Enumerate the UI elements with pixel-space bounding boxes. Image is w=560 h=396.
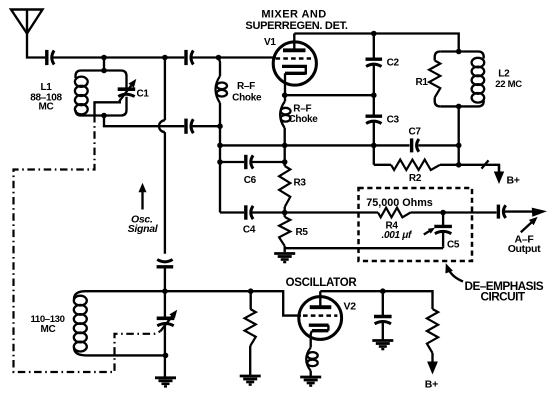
label Osc. Signal bbox=[128, 214, 159, 236]
svg-text:MIXER AND: MIXER AND bbox=[261, 9, 326, 21]
node C6 right bbox=[282, 159, 288, 165]
B+ arrow (bottom) bbox=[427, 353, 438, 375]
wire cathode to C2C3 mid bbox=[285, 94, 374, 96]
node y145 L2 tap bbox=[456, 143, 462, 149]
node L2 top bbox=[456, 49, 462, 55]
wire R4 to output cap bbox=[411, 211, 497, 213]
svg-text:CIRCUIT: CIRCUIT bbox=[481, 290, 526, 304]
node choke2 y145 bbox=[282, 143, 288, 149]
svg-text:Choke: Choke bbox=[232, 92, 262, 103]
wire R3 bottom bbox=[284, 207, 286, 217]
label V2 bbox=[344, 300, 357, 312]
node C2C3 mid bbox=[371, 92, 377, 98]
capacitor tank-bottom coupling bbox=[186, 119, 193, 134]
label C4 bbox=[243, 225, 256, 236]
wire osc tank top bus bbox=[86, 291, 301, 315]
tube V1 bbox=[273, 34, 316, 86]
node R3 R5 C4 bbox=[282, 210, 288, 216]
node C5 tap bbox=[440, 210, 446, 216]
A-F label arrow bbox=[521, 217, 538, 232]
svg-text:B+: B+ bbox=[507, 175, 520, 187]
node cathode tap bbox=[282, 92, 288, 98]
svg-text:75,000 Ohms: 75,000 Ohms bbox=[366, 197, 433, 209]
capacitor C3 bbox=[366, 116, 383, 123]
wire tank bottom to coupling cap bbox=[104, 116, 184, 127]
wire osc rail to varcap bbox=[164, 291, 166, 318]
label C2 bbox=[387, 58, 400, 69]
rf choke 2 bbox=[280, 102, 290, 129]
label R2 bbox=[409, 173, 422, 184]
wire choke2 bottom bbox=[284, 128, 286, 166]
label R1 bbox=[416, 77, 429, 88]
svg-text:C6: C6 bbox=[244, 175, 257, 186]
variable capacitor osc tuning bbox=[157, 310, 178, 332]
svg-text:C5: C5 bbox=[447, 240, 460, 251]
ganged tuning dash-dot link bbox=[14, 115, 161, 372]
wire V2 cathode lead bbox=[311, 331, 312, 348]
wire osc rail upper bbox=[164, 58, 166, 121]
ground bypass bbox=[372, 341, 393, 350]
wire C4 to R4 bus bbox=[251, 211, 379, 213]
wire grid bus left bbox=[52, 56, 185, 58]
label MIXER AND SUPERREGEN. DET. bbox=[245, 9, 347, 32]
label C1 bbox=[137, 89, 150, 100]
label R4 bbox=[386, 221, 399, 232]
wire rail2 bbox=[219, 103, 221, 213]
ground osc grid leak bbox=[240, 376, 261, 385]
svg-text:MC: MC bbox=[39, 102, 54, 113]
A-F output arrow bbox=[503, 208, 547, 217]
tube V2 bbox=[299, 291, 342, 339]
wire C6 right bbox=[251, 161, 285, 163]
capacitor C1 (variable) bbox=[118, 79, 137, 101]
node R2 L2 junction bbox=[456, 162, 462, 168]
wire V1 plate bus bbox=[294, 34, 458, 52]
wire V2 plate bus bbox=[320, 291, 432, 309]
label R-F Choke (2) bbox=[288, 104, 318, 125]
wire bypass cap gnd bbox=[382, 321, 384, 340]
wire C2 stem top bbox=[373, 34, 375, 60]
wire C5 bottom return bbox=[442, 247, 444, 248]
label .001 uf bbox=[382, 228, 435, 241]
label L2 22MC bbox=[495, 69, 522, 90]
label C5 bbox=[447, 240, 460, 251]
label 75,000 Ohms bbox=[366, 197, 433, 209]
label C6 bbox=[244, 175, 257, 186]
wire grid bus right bbox=[191, 56, 275, 58]
wire varcap to tank bottom bbox=[164, 326, 166, 377]
capacitor B+ bypass bbox=[374, 317, 392, 324]
svg-text:Choke: Choke bbox=[288, 114, 318, 125]
wire V2 cathode gnd bbox=[310, 371, 312, 377]
resistor R3 bbox=[279, 166, 290, 207]
svg-text:V2: V2 bbox=[344, 300, 357, 312]
svg-text:Signal: Signal bbox=[128, 223, 159, 235]
node osc tank bottom bbox=[163, 353, 169, 359]
rf choke 1 bbox=[216, 76, 228, 103]
inductor L2 bbox=[440, 52, 484, 107]
capacitor osc injection (top) bbox=[186, 50, 193, 65]
svg-text:R2: R2 bbox=[409, 173, 422, 184]
wire y145 bus bbox=[220, 144, 459, 146]
capacitor osc coupling (rail) bbox=[157, 260, 174, 267]
wire coupling cap to rail2 bbox=[191, 125, 220, 127]
wire C3 to R2 bbox=[374, 164, 391, 166]
node osc injection tap bbox=[162, 55, 168, 61]
wire C1 shaft link (solid part) bbox=[95, 102, 122, 115]
wire osc rail mid bbox=[164, 132, 166, 254]
capacitor C6 bbox=[246, 155, 253, 169]
svg-text:C1: C1 bbox=[137, 89, 150, 100]
label L1 88-108 MC bbox=[30, 82, 62, 113]
antenna bbox=[11, 10, 43, 34]
svg-text:OSCILLATOR: OSCILLATOR bbox=[286, 277, 358, 289]
node osc grid leak tap bbox=[248, 288, 254, 294]
svg-text:V1: V1 bbox=[264, 37, 276, 48]
label C7 bbox=[409, 127, 422, 138]
node tank bottom bbox=[101, 113, 107, 119]
de-emphasis pointer arrow bbox=[445, 263, 463, 281]
wire R5 bottom bbox=[285, 246, 443, 252]
label B+ (bottom) bbox=[425, 378, 438, 390]
wire osc rail lower bbox=[164, 267, 166, 291]
svg-text:R1: R1 bbox=[416, 77, 429, 88]
label R5 bbox=[296, 227, 309, 238]
resistor R2 bbox=[391, 160, 440, 170]
wire choke1 top lead bbox=[219, 58, 221, 77]
capacitor C7 bbox=[412, 138, 419, 152]
ground osc tank bbox=[155, 378, 176, 387]
wire grid leak bottom bbox=[249, 346, 251, 376]
node C3 y145 bbox=[371, 143, 377, 149]
node osc rail tank top bbox=[162, 288, 168, 294]
label C3 bbox=[387, 115, 400, 126]
capacitor antenna coupling bbox=[47, 50, 54, 65]
wire tank stub bbox=[101, 58, 107, 74]
resistor R4 bbox=[378, 208, 411, 218]
label 110-130 MC bbox=[30, 314, 64, 335]
svg-text:R–F: R–F bbox=[237, 81, 255, 92]
ground R5 bbox=[274, 254, 295, 263]
node tank top tap bbox=[101, 55, 107, 61]
capacitor A-F output coupling bbox=[498, 205, 505, 219]
capacitor C5 bbox=[434, 213, 452, 247]
svg-text:C2: C2 bbox=[387, 58, 400, 69]
label R-F Choke (1) bbox=[232, 81, 262, 103]
oscillator tank coil bbox=[74, 291, 166, 355]
node V2 bypass tap bbox=[380, 288, 386, 294]
wire antenna lead bbox=[27, 32, 45, 58]
label A-F Output bbox=[508, 233, 541, 255]
svg-text:MC: MC bbox=[41, 324, 56, 335]
svg-text:Output: Output bbox=[508, 243, 541, 255]
svg-text:C4: C4 bbox=[243, 225, 256, 236]
de-emphasis dashed box bbox=[359, 188, 473, 261]
svg-text:C7: C7 bbox=[409, 127, 422, 138]
inductor L1 bbox=[75, 71, 127, 116]
label B+ (top) bbox=[507, 175, 520, 187]
node rail2 y162 bbox=[217, 159, 223, 165]
svg-text:22 MC: 22 MC bbox=[495, 79, 522, 90]
wire C2-C3 bbox=[373, 64, 375, 116]
wire bypass cap stem bbox=[382, 291, 384, 316]
capacitor C4 bbox=[246, 205, 253, 219]
label OSCILLATOR bbox=[286, 277, 358, 289]
Osc. Signal arrow bbox=[139, 183, 147, 210]
svg-text:R5: R5 bbox=[296, 227, 309, 238]
wire rail2 to C4 bbox=[220, 211, 244, 213]
wire L2 bottom rail bbox=[458, 106, 460, 164]
label R3 bbox=[294, 178, 307, 189]
resistor osc grid leak bbox=[245, 309, 256, 346]
svg-text:.001 μf: .001 μf bbox=[382, 230, 413, 241]
wire grid leak top bbox=[250, 291, 252, 309]
svg-text:R3: R3 bbox=[294, 178, 307, 189]
capacitor C2 bbox=[366, 59, 383, 66]
node plate bus C2 tap bbox=[371, 31, 377, 37]
B+ arrow (top) bbox=[494, 165, 504, 184]
node choke tap bbox=[216, 55, 222, 61]
break slash B+ (top) bbox=[482, 160, 489, 168]
cathode coil V2 bbox=[306, 348, 317, 371]
ground V2 cathode bbox=[300, 377, 321, 386]
wire V1 cathode lead bbox=[284, 73, 286, 101]
wire R2 to B+ bbox=[440, 165, 499, 173]
resistor B+ dropping bbox=[427, 309, 438, 353]
svg-text:C3: C3 bbox=[387, 115, 400, 126]
label DE-EMPHASIS CIRCUIT bbox=[465, 279, 544, 304]
wire C3 stem bottom bbox=[373, 121, 375, 165]
node rail2 at y126 bbox=[217, 123, 223, 129]
svg-text:B+: B+ bbox=[425, 378, 438, 390]
resistor R5 bbox=[279, 217, 290, 246]
node rail2 y145 bbox=[217, 143, 223, 149]
label V1 bbox=[264, 37, 276, 48]
wire C6 left bbox=[220, 161, 244, 163]
svg-text:SUPERREGEN. DET.: SUPERREGEN. DET. bbox=[245, 20, 347, 32]
node L2 bottom bbox=[456, 104, 462, 110]
wire osc rail hop bbox=[159, 120, 165, 132]
resistor R1 bbox=[429, 52, 440, 107]
